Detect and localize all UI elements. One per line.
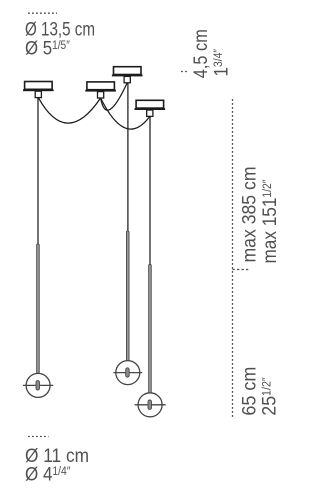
canopy C1 <box>23 82 54 98</box>
tick max length <box>233 269 250 271</box>
rod lamp2 <box>126 231 129 361</box>
wire drop lamp3 <box>149 116 151 265</box>
svg-text:65 cm: 65 cm <box>240 367 261 416</box>
diffuser lamp1 <box>23 373 53 397</box>
canopy C4 <box>135 100 166 116</box>
dotted leader bottom-left <box>28 436 49 438</box>
rod lamp3 <box>149 264 152 393</box>
diffuser lamp2 <box>113 361 142 385</box>
svg-text:max 385 cm: max 385 cm <box>240 167 261 263</box>
wire drop lamp2 <box>127 83 129 232</box>
dotted leader top-left <box>28 12 57 14</box>
canopy C2 <box>85 82 116 98</box>
canopy C3 <box>112 67 143 83</box>
wire swag C1-C2 <box>38 98 100 124</box>
wire swag C2-C3 <box>101 83 128 110</box>
svg-text:Ø 13,5 cm: Ø 13,5 cm <box>25 19 95 40</box>
wire swag C2-C4 <box>101 98 150 129</box>
svg-text:4,5 cm: 4,5 cm <box>191 29 212 78</box>
rod lamp1 <box>37 244 40 374</box>
tick ceiling right <box>181 71 188 73</box>
diffuser lamp3 <box>135 393 166 417</box>
wire drop lamp1 <box>37 98 39 245</box>
dashed dimension line <box>232 99 234 417</box>
